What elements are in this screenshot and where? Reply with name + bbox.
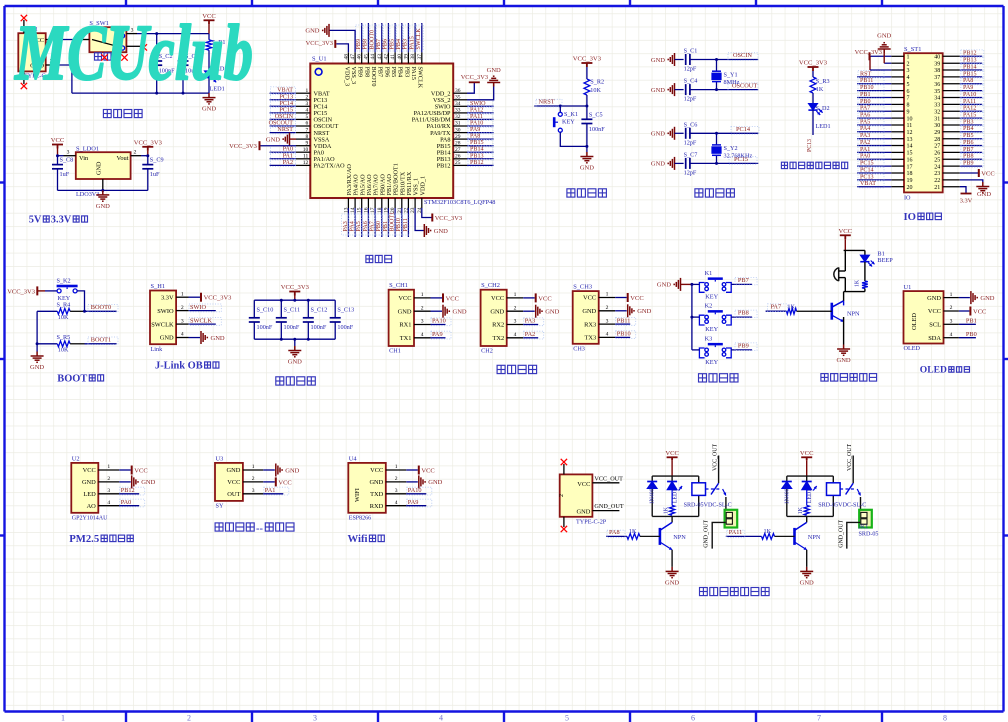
svg-text:LED1: LED1 — [807, 489, 813, 503]
svg-text:13: 13 — [907, 137, 913, 143]
ground VSS_3 — [329, 30, 355, 52]
caption 串口电路 — [497, 365, 536, 373]
svg-text:1: 1 — [252, 464, 255, 470]
pin 3 — [64, 155, 76, 157]
ground — [971, 291, 977, 304]
pin 6 OSCOUT — [296, 125, 310, 127]
wire net PC14 — [270, 105, 296, 107]
wire net PA1 — [263, 493, 283, 495]
svg-text:PA12: PA12 — [470, 107, 483, 113]
wire bottom rail — [844, 291, 865, 293]
svg-text:K2: K2 — [705, 303, 713, 310]
svg-text:GND: GND — [453, 309, 467, 316]
svg-text:VCC_OUT: VCC_OUT — [847, 443, 853, 471]
wire net PB12 — [119, 493, 139, 495]
ground — [668, 157, 674, 170]
pin 18 — [891, 172, 904, 174]
caption 滤波电路 — [276, 377, 316, 385]
svg-text:PA1: PA1 — [265, 487, 276, 494]
LED branch — [864, 250, 866, 255]
svg-text:30: 30 — [934, 123, 940, 129]
svg-text:100nF: 100nF — [311, 324, 327, 331]
svg-text:2: 2 — [950, 305, 953, 311]
svg-text:KEY: KEY — [705, 326, 718, 333]
pin 28 — [943, 138, 960, 140]
svg-text:2: 2 — [606, 305, 609, 311]
svg-text:27: 27 — [934, 144, 940, 150]
ground VSSA — [290, 138, 297, 140]
pin 24 — [943, 165, 960, 167]
svg-text:GND: GND — [160, 335, 174, 342]
ground — [132, 475, 138, 488]
svg-text:26: 26 — [455, 154, 461, 160]
svg-text:PA1: PA1 — [860, 147, 870, 153]
pin 17 PA7/AO — [374, 198, 376, 208]
resistor S_R1 — [208, 34, 210, 40]
svg-text:KEY: KEY — [705, 359, 718, 366]
svg-text:30: 30 — [455, 127, 461, 133]
svg-text:SWIO: SWIO — [190, 304, 207, 311]
svg-text:VCC_3V3: VCC_3V3 — [204, 295, 232, 302]
svg-text:1: 1 — [950, 292, 953, 298]
svg-text:PB12: PB12 — [121, 487, 135, 494]
power VCC_3V3 — [200, 293, 202, 302]
svg-text:11: 11 — [303, 154, 309, 160]
pin 6 — [891, 90, 904, 92]
wire net NRST — [534, 105, 587, 107]
svg-text:TX3: TX3 — [584, 335, 596, 342]
buzzer B1 BEEP — [834, 267, 839, 281]
svg-text:2: 2 — [107, 476, 110, 482]
svg-text:SRD-05VDC-SL-C: SRD-05VDC-SL-C — [684, 503, 732, 509]
svg-text:15: 15 — [907, 151, 913, 157]
pin 3 — [891, 69, 904, 71]
svg-text:PA2/TX/AO: PA2/TX/AO — [314, 163, 346, 170]
wire net PA4 — [354, 208, 356, 237]
wire net PA0 — [119, 505, 139, 507]
svg-text:VCC: VCC — [538, 295, 551, 302]
svg-text:PB7: PB7 — [377, 67, 384, 78]
svg-text:3: 3 — [107, 488, 110, 494]
pin 42 PB6 — [387, 52, 389, 63]
pin 37 — [943, 76, 960, 78]
svg-text:19: 19 — [907, 178, 913, 184]
wire — [843, 317, 845, 345]
svg-text:PC14: PC14 — [736, 126, 751, 133]
svg-text:3: 3 — [950, 319, 953, 325]
svg-text:1K: 1K — [664, 506, 670, 514]
key K3 — [699, 348, 731, 358]
svg-text:1K: 1K — [798, 506, 804, 514]
svg-text:BOOT: BOOT — [57, 373, 87, 384]
module U2 — [71, 463, 98, 513]
svg-text:20: 20 — [907, 185, 913, 191]
wire net PA9 — [467, 132, 494, 134]
svg-text:2: 2 — [421, 305, 424, 311]
svg-text:S_C6: S_C6 — [684, 121, 698, 128]
svg-text:GND: GND — [877, 33, 891, 40]
wire gnd rail — [36, 311, 38, 351]
ground — [443, 305, 449, 318]
wire — [119, 481, 131, 483]
pin 40 PB4 — [401, 52, 403, 63]
svg-text:Vin: Vin — [79, 155, 89, 162]
capacitor S_C3 — [178, 60, 189, 62]
svg-text:GND: GND — [651, 161, 665, 168]
svg-text:4: 4 — [395, 500, 398, 506]
svg-text:33: 33 — [455, 108, 461, 114]
power VCC_3V3 VDD_2 — [467, 82, 474, 93]
svg-text:PB4: PB4 — [396, 39, 402, 50]
wire — [208, 78, 210, 93]
power VCC — [204, 20, 215, 24]
svg-text:12pF: 12pF — [684, 169, 697, 176]
wire — [294, 339, 296, 346]
svg-text:GND: GND — [96, 203, 110, 210]
wire — [58, 155, 64, 157]
relay switch — [718, 456, 720, 484]
wire net PA3 — [857, 138, 891, 140]
crystal S_Y2 — [716, 133, 718, 145]
LED — [806, 481, 808, 483]
pin 45 PB8 — [367, 52, 369, 63]
ground — [800, 567, 813, 578]
svg-text:5: 5 — [306, 114, 309, 120]
svg-text:40: 40 — [934, 55, 940, 61]
pin 19 — [891, 179, 904, 181]
pin 46 PB9 — [361, 52, 363, 63]
wire net PB12 — [960, 55, 982, 57]
svg-text:S_C4: S_C4 — [684, 78, 698, 85]
svg-text:GND_OUT: GND_OUT — [704, 519, 710, 547]
svg-text:TX1: TX1 — [400, 335, 412, 342]
pin 26 — [943, 151, 960, 153]
svg-text:SWCLK: SWCLK — [416, 28, 422, 50]
svg-text:PA2: PA2 — [525, 331, 536, 338]
svg-text:1K: 1K — [787, 303, 795, 310]
wire net PC13 — [270, 99, 296, 101]
pin 1 gnd — [102, 179, 104, 190]
wire — [523, 310, 535, 312]
switch S_SW1 — [89, 27, 126, 52]
svg-text:PA15: PA15 — [963, 113, 976, 119]
wire net PB13 — [467, 158, 494, 160]
pin 4 nc — [126, 45, 140, 47]
wire — [57, 169, 59, 191]
wire — [586, 95, 588, 119]
capacitor S_C6 — [685, 128, 687, 139]
wire net PC13 — [812, 110, 814, 135]
svg-text:OSCIN: OSCIN — [275, 114, 294, 120]
ground — [674, 278, 680, 291]
svg-text:8: 8 — [306, 134, 309, 140]
svg-text:1: 1 — [181, 291, 184, 297]
svg-text:VCC: VCC — [83, 467, 96, 474]
ground — [276, 464, 282, 477]
svg-text:GND: GND — [800, 579, 814, 586]
svg-text:LED1: LED1 — [816, 123, 831, 130]
svg-text:2: 2 — [252, 476, 255, 482]
svg-text:PB5: PB5 — [963, 133, 974, 139]
svg-text:9: 9 — [306, 140, 309, 146]
wire net OSCIN — [270, 118, 296, 120]
svg-text:37: 37 — [417, 54, 423, 60]
pin 23 VSS_1 — [414, 198, 416, 208]
wire net PB9 — [731, 349, 752, 351]
no-connect pin bottom — [23, 71, 25, 84]
svg-text:4: 4 — [950, 332, 953, 338]
pin 31 PA10/RX — [453, 125, 467, 127]
svg-text:LED: LED — [83, 491, 96, 498]
svg-text:4: 4 — [181, 332, 184, 338]
wire collector — [671, 516, 673, 522]
pin 23 — [943, 172, 960, 174]
svg-text:PB7: PB7 — [738, 277, 749, 284]
svg-text:Wifi: Wifi — [348, 533, 368, 545]
power VCC pin23 — [960, 172, 978, 174]
svg-text:PA4: PA4 — [860, 126, 870, 132]
wire net PB15 — [467, 145, 494, 147]
svg-text:17: 17 — [907, 164, 913, 170]
svg-text:PA5: PA5 — [860, 119, 870, 125]
svg-text:PA9: PA9 — [470, 127, 480, 133]
wire net OSCOUT — [690, 89, 758, 91]
svg-text:VBAT: VBAT — [860, 181, 876, 187]
svg-text:VDD_3: VDD_3 — [343, 67, 350, 87]
wire net GND_OUT — [847, 522, 860, 548]
resistor 1K — [627, 534, 640, 540]
wire net PB10 — [857, 90, 891, 92]
svg-text:S_R2: S_R2 — [590, 79, 604, 86]
caption 按键电路 — [699, 374, 739, 382]
power VCC — [667, 457, 678, 460]
svg-text:RST: RST — [860, 71, 871, 77]
svg-text:GND: GND — [980, 295, 994, 302]
svg-text:GND: GND — [490, 308, 504, 315]
svg-text:OUT: OUT — [227, 491, 240, 498]
wire net SWCLK — [189, 323, 216, 325]
svg-text:PB6: PB6 — [383, 39, 389, 50]
svg-text:32: 32 — [455, 114, 461, 120]
svg-text:PB15: PB15 — [963, 71, 977, 77]
wire net PA0 — [857, 158, 891, 160]
svg-text:PB4: PB4 — [963, 126, 974, 132]
svg-text:PB9: PB9 — [356, 39, 362, 50]
svg-text:GP2Y1014AU: GP2Y1014AU — [72, 515, 108, 521]
svg-text:1: 1 — [306, 88, 309, 94]
resistor 1K — [787, 308, 797, 314]
capacitor S_C4 — [685, 84, 687, 95]
svg-text:U4: U4 — [349, 455, 358, 462]
svg-text:37: 37 — [934, 75, 940, 81]
pin 41 PB5 — [394, 52, 396, 63]
ground — [837, 345, 850, 356]
svg-text:4: 4 — [606, 332, 609, 338]
svg-text:3: 3 — [252, 488, 255, 494]
svg-text:GND: GND — [434, 228, 448, 235]
wire — [692, 283, 700, 285]
svg-text:2: 2 — [181, 305, 184, 311]
svg-text:S_Y2: S_Y2 — [724, 145, 738, 152]
pin 10 PA0 — [296, 151, 310, 153]
crystal S_Y1 — [716, 60, 718, 72]
wire net PA11 — [467, 118, 494, 120]
ground — [96, 190, 109, 201]
svg-text:PB9: PB9 — [738, 343, 749, 350]
svg-text:1: 1 — [107, 464, 110, 470]
pin 22 — [943, 179, 960, 181]
svg-text:PB10: PB10 — [860, 85, 874, 91]
svg-text:S_K1: S_K1 — [564, 111, 578, 118]
wire net PB8 — [960, 158, 982, 160]
pin 47 VSS_3 — [354, 52, 356, 63]
pin 38 — [943, 69, 960, 71]
pin 3 — [126, 33, 137, 35]
svg-text:S_C7: S_C7 — [684, 151, 698, 158]
svg-text:PB8: PB8 — [363, 39, 369, 50]
wire net BOOT0 — [85, 310, 117, 312]
svg-text:PA15: PA15 — [410, 67, 417, 81]
svg-text:33: 33 — [934, 103, 940, 109]
svg-text:VCC_OUT: VCC_OUT — [594, 475, 623, 482]
svg-text:PB13: PB13 — [963, 58, 977, 64]
capacitor S_C13 — [334, 300, 336, 318]
svg-text:1N4007: 1N4007 — [650, 485, 656, 504]
wire net PA0 — [270, 151, 296, 153]
pin 11 — [891, 124, 904, 126]
svg-text:VCC_3V3: VCC_3V3 — [229, 143, 257, 150]
svg-text:PA9: PA9 — [432, 331, 443, 338]
wire net PA5 — [361, 208, 363, 237]
svg-text:3: 3 — [181, 318, 184, 324]
svg-text:SDA: SDA — [928, 335, 941, 342]
svg-text:PB7: PB7 — [963, 147, 974, 153]
pin 44 BOOT0 — [374, 52, 376, 63]
svg-text:PB7: PB7 — [376, 39, 382, 50]
pin 48 VDD_3 — [347, 52, 349, 63]
svg-text:9: 9 — [907, 109, 910, 115]
svg-text:GND: GND — [580, 165, 594, 172]
wire net PA4 — [857, 131, 891, 133]
wire net PA2 — [523, 337, 538, 339]
svg-text:PB14: PB14 — [963, 64, 977, 70]
svg-text:VCC: VCC — [583, 295, 596, 302]
wire net PA12 — [467, 112, 494, 114]
svg-text:S_C8: S_C8 — [60, 157, 74, 164]
transistor NPN — [843, 292, 845, 302]
svg-text:GND: GND — [266, 136, 280, 143]
svg-text:PA9: PA9 — [963, 85, 973, 91]
power VCC_3V3 — [808, 67, 819, 71]
svg-text:S_C11: S_C11 — [284, 307, 301, 314]
power VCC — [418, 466, 420, 475]
wire — [141, 155, 148, 157]
wire top rail — [254, 299, 335, 301]
wire net PC15 — [690, 162, 758, 164]
wire net PB3 — [407, 23, 409, 52]
svg-text:VCC_3V3: VCC_3V3 — [281, 284, 310, 291]
svg-text:1: 1 — [421, 292, 424, 298]
svg-text:3: 3 — [306, 101, 309, 107]
svg-text:PA10: PA10 — [408, 487, 422, 494]
resistor 1K — [670, 505, 675, 515]
power VCC — [840, 235, 851, 239]
svg-text:PA10: PA10 — [470, 121, 483, 127]
display U1 OLED — [904, 291, 944, 343]
svg-text:ESP8266: ESP8266 — [349, 515, 371, 521]
wire net VBAT — [857, 186, 891, 188]
pin 2 — [46, 64, 58, 66]
svg-text:PB11: PB11 — [617, 317, 631, 324]
wire net PB11 — [615, 323, 630, 325]
wire net PA10 — [431, 324, 446, 326]
svg-text:PA3: PA3 — [525, 318, 536, 325]
svg-text:GND: GND — [285, 467, 299, 474]
wire net PB1 — [857, 97, 891, 99]
svg-text:S_C9: S_C9 — [150, 157, 164, 164]
wire net SWIO — [467, 105, 494, 107]
wire net PB15 — [960, 76, 982, 78]
pin 26 PB13 — [453, 158, 467, 160]
svg-text:PA8: PA8 — [609, 529, 620, 536]
wire net PB7 — [381, 23, 383, 52]
svg-text:43: 43 — [377, 54, 383, 60]
svg-text:JK1: JK1 — [859, 524, 869, 530]
svg-text:8MHz: 8MHz — [724, 79, 740, 86]
pin 31 — [943, 117, 960, 119]
svg-text:NRST: NRST — [277, 127, 293, 133]
svg-text:BEEP: BEEP — [877, 257, 893, 264]
pin 16 — [891, 158, 904, 160]
svg-text:PA7: PA7 — [771, 303, 782, 310]
caption 继电器控制电路 — [700, 588, 770, 596]
capacitor S_C10 — [253, 300, 255, 318]
power VCC_3V3 VDD_1 — [422, 208, 432, 218]
wire net VCC_OUT — [592, 482, 619, 484]
svg-text:GND: GND — [305, 28, 319, 35]
ground — [536, 305, 542, 318]
wire — [586, 67, 588, 79]
wire net PC14 — [857, 172, 891, 174]
wire net PA9 — [406, 505, 426, 507]
svg-text:VCC_3V3: VCC_3V3 — [855, 49, 882, 56]
pin 28 PB15 — [453, 145, 467, 147]
svg-text:3.3V: 3.3V — [161, 294, 174, 301]
wire net PB5 — [394, 23, 396, 52]
wire net PB13 — [960, 62, 982, 64]
svg-text:NPN: NPN — [673, 534, 686, 541]
svg-text:PB11: PB11 — [860, 78, 873, 84]
capacitor S_C9 — [142, 164, 153, 166]
svg-text:2: 2 — [187, 714, 191, 722]
wire net PA11 — [960, 103, 982, 105]
svg-text:PA8: PA8 — [963, 78, 973, 84]
svg-text:PA11: PA11 — [470, 114, 483, 120]
wire net NRST — [270, 132, 296, 134]
svg-text:VCC: VCC — [800, 450, 814, 457]
svg-text:36: 36 — [934, 82, 940, 88]
wire net PB4 — [960, 131, 982, 133]
ground — [628, 304, 634, 317]
pin 14 — [891, 145, 904, 147]
svg-text:45: 45 — [363, 54, 369, 60]
wire net PB0 — [857, 103, 891, 105]
svg-text:KEY: KEY — [562, 119, 575, 126]
svg-text:5: 5 — [907, 82, 910, 88]
ground — [201, 331, 207, 344]
pin 19 PB1/AO — [387, 198, 389, 208]
svg-text:PB5: PB5 — [390, 67, 397, 78]
